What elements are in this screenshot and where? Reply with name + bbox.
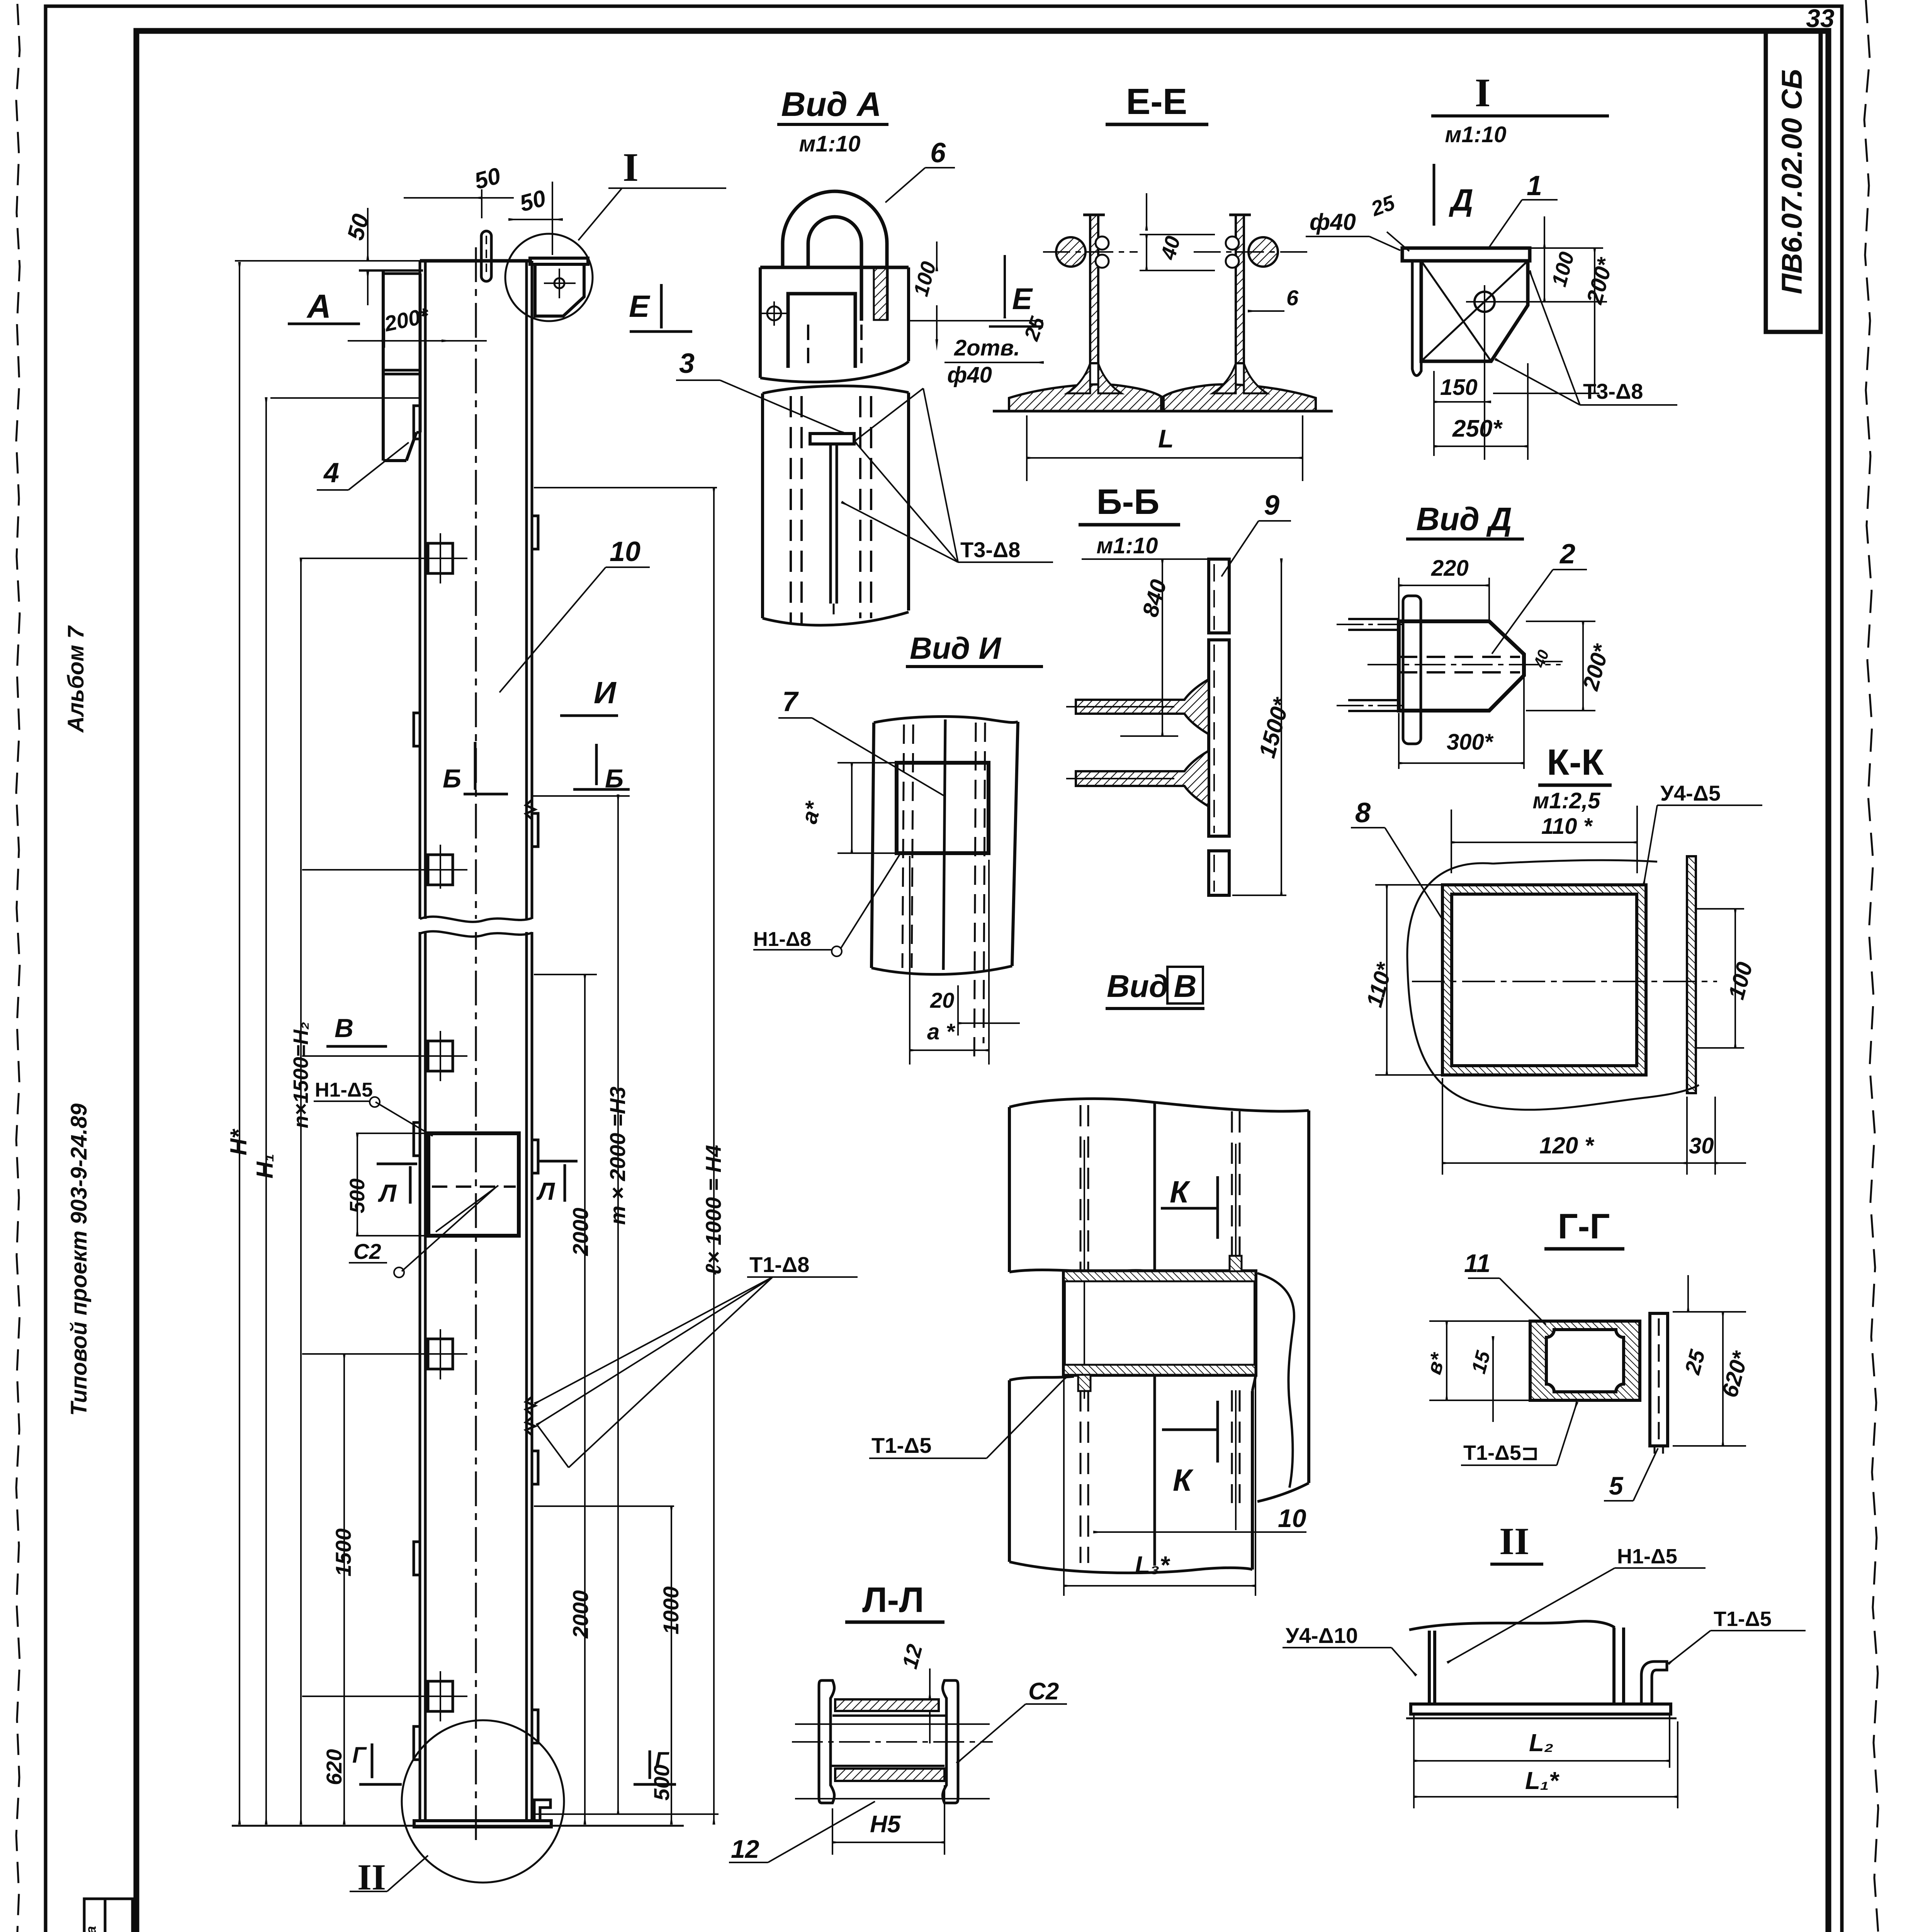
svg-text:a *: a * <box>927 1019 955 1044</box>
svg-text:Е: Е <box>1012 282 1033 316</box>
svg-text:6: 6 <box>1286 286 1299 310</box>
svg-text:У4-Δ5: У4-Δ5 <box>1660 781 1721 805</box>
svg-text:Вид И: Вид И <box>910 631 1001 665</box>
svg-text:У4-Δ10: У4-Δ10 <box>1286 1623 1358 1648</box>
svg-text:Т1-Δ8: Т1-Δ8 <box>749 1252 809 1277</box>
svg-text:1: 1 <box>1527 170 1542 201</box>
svg-text:3: 3 <box>679 348 695 379</box>
svg-text:2000: 2000 <box>568 1590 593 1639</box>
svg-text:7: 7 <box>782 686 799 717</box>
svg-text:Н1-Δ8: Н1-Δ8 <box>753 928 811 951</box>
svg-text:II: II <box>1499 1520 1529 1563</box>
svg-text:50: 50 <box>472 163 503 194</box>
svg-text:12: 12 <box>897 1642 927 1671</box>
svg-text:6: 6 <box>930 138 946 168</box>
svg-text:Е-Е: Е-Е <box>1126 81 1187 122</box>
svg-text:620: 620 <box>322 1749 346 1785</box>
svg-text:ф40: ф40 <box>947 362 992 388</box>
svg-text:Б: Б <box>443 764 461 793</box>
svg-text:Л-Л: Л-Л <box>862 1580 924 1620</box>
svg-text:50: 50 <box>517 185 549 217</box>
svg-text:Б-Б: Б-Б <box>1097 482 1160 522</box>
svg-text:40: 40 <box>1531 648 1553 670</box>
svg-text:Типовой проект 903-9-24.89: Типовой проект 903-9-24.89 <box>66 1104 92 1416</box>
svg-text:К-К: К-К <box>1547 742 1604 783</box>
svg-text:ℓ× 1000 = Н4: ℓ× 1000 = Н4 <box>701 1145 725 1275</box>
svg-text:1500*: 1500* <box>1254 694 1295 760</box>
svg-text:В: В <box>1174 969 1196 1004</box>
svg-text:25: 25 <box>1020 313 1050 344</box>
svg-text:И: И <box>594 675 617 710</box>
svg-text:500: 500 <box>346 1179 369 1213</box>
svg-text:Л: Л <box>536 1177 555 1205</box>
svg-text:9: 9 <box>1264 490 1279 521</box>
svg-text:8: 8 <box>1355 798 1371 828</box>
svg-text:200*: 200* <box>1582 255 1619 307</box>
svg-text:I: I <box>1475 70 1491 115</box>
svg-text:100: 100 <box>1724 959 1758 1002</box>
svg-text:Н1-Δ5: Н1-Δ5 <box>315 1079 373 1101</box>
svg-text:L₂: L₂ <box>1529 1729 1554 1757</box>
svg-text:20: 20 <box>930 988 954 1012</box>
svg-text:С2: С2 <box>1028 1678 1059 1705</box>
svg-text:10: 10 <box>610 536 640 567</box>
svg-text:12: 12 <box>731 1835 759 1863</box>
svg-text:Т1-Δ5: Т1-Δ5 <box>1714 1607 1772 1631</box>
svg-text:ф40: ф40 <box>1310 209 1356 235</box>
svg-text:В: В <box>335 1014 353 1043</box>
svg-text:110 *: 110 * <box>1541 814 1593 839</box>
svg-text:L: L <box>1158 424 1174 453</box>
svg-text:40: 40 <box>1156 234 1185 263</box>
svg-text:Д: Д <box>1449 183 1473 217</box>
svg-text:м1:2,5: м1:2,5 <box>1532 788 1600 813</box>
svg-text:2000: 2000 <box>568 1207 593 1256</box>
svg-text:100: 100 <box>909 259 941 299</box>
svg-text:Подп. и дата: Подп. и дата <box>83 1926 99 1932</box>
svg-text:Т3-Δ8: Т3-Δ8 <box>960 537 1020 562</box>
svg-text:5: 5 <box>1609 1471 1624 1500</box>
svg-text:I: I <box>623 145 639 190</box>
svg-text:L₃*: L₃* <box>1135 1551 1170 1579</box>
svg-text:50: 50 <box>342 211 374 243</box>
svg-text:4: 4 <box>323 457 339 488</box>
svg-text:Е: Е <box>629 289 651 323</box>
svg-text:Н5: Н5 <box>870 1811 901 1838</box>
svg-text:м1:10: м1:10 <box>1097 533 1158 558</box>
svg-text:Т1-Δ5⊐: Т1-Δ5⊐ <box>1463 1441 1539 1464</box>
svg-text:Т3-Δ8: Т3-Δ8 <box>1583 379 1643 403</box>
svg-text:1000: 1000 <box>659 1586 683 1634</box>
svg-text:220: 220 <box>1431 556 1469 581</box>
svg-text:a*: a* <box>797 798 827 826</box>
svg-text:150: 150 <box>1440 375 1478 400</box>
svg-text:11: 11 <box>1464 1249 1491 1277</box>
svg-text:10: 10 <box>1278 1504 1306 1532</box>
svg-text:n×1500=Н₂: n×1500=Н₂ <box>289 1022 313 1128</box>
svg-text:А: А <box>306 288 331 325</box>
svg-text:2отв.: 2отв. <box>954 335 1020 361</box>
svg-text:100: 100 <box>1548 250 1579 289</box>
svg-text:300*: 300* <box>1447 730 1494 755</box>
svg-text:1500: 1500 <box>331 1528 355 1577</box>
svg-text:Вид: Вид <box>1107 969 1169 1004</box>
svg-text:Н₁: Н₁ <box>252 1154 278 1179</box>
svg-text:120 *: 120 * <box>1539 1133 1595 1158</box>
svg-text:Н1-Δ5: Н1-Δ5 <box>1617 1545 1677 1568</box>
svg-text:ПВ6.07.02.00 СБ: ПВ6.07.02.00 СБ <box>1776 69 1808 294</box>
svg-text:Н*: Н* <box>226 1129 251 1155</box>
svg-text:К: К <box>1173 1463 1194 1497</box>
svg-text:L₁*: L₁* <box>1525 1767 1560 1794</box>
svg-text:Г: Г <box>352 1743 367 1768</box>
svg-text:Альбом 7: Альбом 7 <box>63 625 88 733</box>
svg-text:Л: Л <box>378 1179 397 1207</box>
svg-text:33: 33 <box>1806 4 1834 32</box>
svg-text:m × 2000 =Н3: m × 2000 =Н3 <box>605 1087 630 1225</box>
svg-text:Г-Г: Г-Г <box>1558 1207 1610 1246</box>
svg-text:К: К <box>1170 1175 1191 1209</box>
svg-text:С2: С2 <box>353 1239 381 1264</box>
svg-text:110*: 110* <box>1362 959 1398 1010</box>
svg-text:15: 15 <box>1468 1348 1495 1376</box>
svg-text:Т1-Δ5: Т1-Δ5 <box>871 1433 931 1458</box>
svg-text:840: 840 <box>1138 577 1172 619</box>
svg-text:250*: 250* <box>1452 415 1503 442</box>
svg-text:II: II <box>357 1857 386 1898</box>
svg-text:30: 30 <box>1689 1133 1714 1158</box>
svg-text:Вид Д: Вид Д <box>1416 501 1512 537</box>
svg-text:25: 25 <box>1368 191 1398 221</box>
svg-text:Б: Б <box>605 764 623 793</box>
svg-text:м1:10: м1:10 <box>1445 122 1507 147</box>
svg-text:500: 500 <box>649 1765 674 1801</box>
svg-text:2: 2 <box>1559 539 1575 570</box>
svg-text:Вид А: Вид А <box>781 85 882 123</box>
svg-text:м1:10: м1:10 <box>799 131 861 156</box>
svg-text:25: 25 <box>1680 1347 1709 1377</box>
